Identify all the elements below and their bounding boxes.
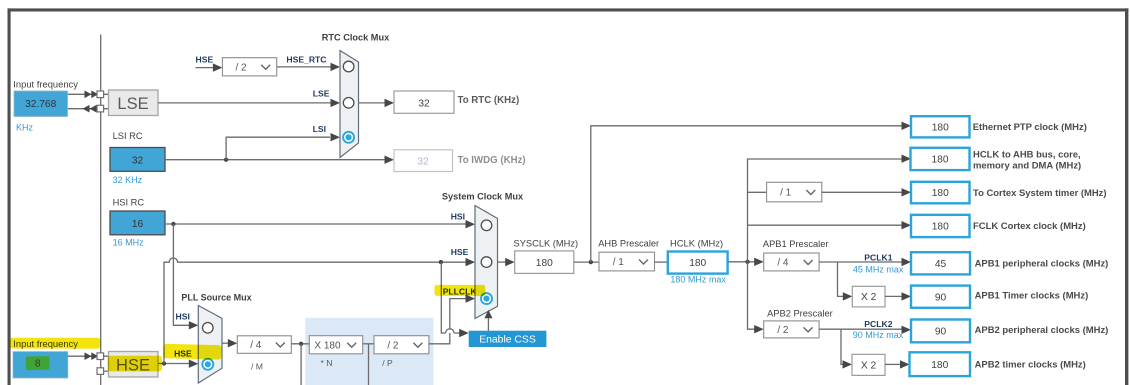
- HSE oscillator box: [109, 352, 159, 378]
- frame border top: [8, 8, 1129, 11]
- SYSCLK value box: [515, 251, 574, 274]
- To Cortex System timer label: [973, 188, 1107, 199]
- system clock mux body: [475, 206, 498, 319]
- wire LSE port to input-freq (return): [68, 108, 98, 110]
- HSE value green patch: [26, 356, 50, 370]
- svg-text:/ 2: / 2: [387, 340, 399, 351]
- wire HCLK riser: [748, 155, 912, 262]
- wire HSE_RTC to RTC mux: [277, 63, 340, 71]
- svg-text:To IWDG (KHz): To IWDG (KHz): [458, 155, 526, 166]
- PLL mux HSI radio: [203, 323, 214, 334]
- svg-text:/ M: / M: [251, 361, 263, 371]
- svg-text:180: 180: [932, 222, 949, 233]
- PCLK2 max label: [853, 330, 904, 340]
- wire LSE ports to LSE box: [104, 94, 109, 108]
- APB1 Prescaler label: [763, 239, 829, 249]
- multiplier N label: [321, 358, 333, 368]
- svg-text:PCLK1: PCLK1: [864, 253, 892, 263]
- svg-text:180: 180: [932, 188, 949, 199]
- HCLK label: [670, 237, 723, 248]
- PLL mux HSE radio selected: [202, 359, 213, 370]
- svg-text:32.768: 32.768: [25, 99, 56, 110]
- svg-text:HSE: HSE: [451, 247, 469, 257]
- svg-text:AHB Prescaler: AHB Prescaler: [598, 238, 659, 248]
- svg-text:90 MHz max: 90 MHz max: [853, 330, 904, 340]
- To IWDG label: [458, 155, 526, 166]
- svg-text:180: 180: [931, 360, 948, 371]
- APB2 timer clocks box: [910, 352, 971, 376]
- To RTC value box: [394, 91, 454, 113]
- HSE net label at RTC divider: [196, 54, 214, 64]
- svg-text:APB2 peripheral clocks (MHz): APB2 peripheral clocks (MHz): [975, 325, 1109, 336]
- divider P label: [382, 358, 393, 368]
- svg-text:Input frequency: Input frequency: [13, 78, 78, 89]
- svg-text:180 MHz max: 180 MHz max: [670, 274, 726, 284]
- double arrow forward HSE: [85, 352, 99, 360]
- LSI net label: [313, 124, 326, 134]
- wire input-freq to HSE port: [68, 355, 97, 357]
- PCLK1 max label: [853, 265, 904, 275]
- wire NP drop: [368, 344, 370, 385]
- PCLK1 net label: [864, 253, 892, 263]
- system mux HSI radio: [481, 220, 492, 231]
- wire APB2 X2 out: [885, 360, 910, 368]
- svg-text:HSE_RTC: HSE_RTC: [286, 54, 326, 64]
- svg-text:Ethernet PTP clock (MHz): Ethernet PTP clock (MHz): [973, 122, 1087, 133]
- svg-text:/ 4: / 4: [250, 340, 262, 351]
- wire M to N: [291, 343, 309, 345]
- wire HSE riser to system mux: [164, 258, 475, 364]
- svg-text:HSI RC: HSI RC: [113, 198, 145, 208]
- wire LSE to RTC mux: [158, 99, 340, 107]
- port square HSE upper: [97, 353, 104, 360]
- svg-text:To RTC (KHz): To RTC (KHz): [458, 95, 520, 106]
- APB2 X2 multiplier box: [852, 354, 885, 375]
- APB1 peripheral clocks label: [975, 258, 1109, 269]
- FCLK Cortex clock box: [911, 215, 970, 237]
- svg-text:32 KHz: 32 KHz: [113, 175, 143, 185]
- port square HSE lower: [97, 368, 104, 375]
- wire HSE stub to RTC divider: [196, 63, 223, 71]
- HSI RC box: [110, 211, 165, 235]
- RTC mux input LSI radio selected: [343, 132, 354, 143]
- wire system mux to SYSCLK box: [498, 258, 515, 266]
- HSI net label at PLL mux: [176, 311, 190, 321]
- system mux HSE radio: [481, 257, 492, 268]
- wire PLL M drop: [300, 344, 302, 385]
- wire APB1 timer branch: [838, 262, 853, 301]
- APB2 Prescaler label: [767, 309, 833, 319]
- port square LSE upper: [97, 91, 104, 98]
- HSE input frequency box: [13, 352, 68, 378]
- APB1 X2 multiplier box: [852, 286, 885, 307]
- LSI RC label: [113, 131, 143, 141]
- wire cortex prescaler out: [822, 188, 911, 196]
- PLL divider M dropdown: [237, 336, 291, 354]
- svg-text:45 MHz max: 45 MHz max: [853, 265, 904, 275]
- wire HSE to CSS (with hop): [441, 262, 468, 337]
- svg-text:To Cortex System timer (MHz): To Cortex System timer (MHz): [973, 188, 1107, 199]
- svg-text:HCLK to AHB bus, core,: HCLK to AHB bus, core,: [973, 150, 1081, 161]
- svg-text:PCLK2: PCLK2: [864, 319, 892, 329]
- svg-text:FCLK Cortex clock (MHz): FCLK Cortex clock (MHz): [973, 221, 1086, 232]
- svg-text:/ 1: / 1: [613, 257, 625, 268]
- wire CSS arrow into mux: [484, 310, 492, 331]
- wire LSI riser to RTC mux: [226, 133, 340, 160]
- double arrow forward LSE: [85, 91, 99, 99]
- svg-text:90: 90: [935, 292, 947, 303]
- svg-text:/ 4: / 4: [777, 257, 789, 268]
- svg-text:HSE: HSE: [196, 54, 214, 64]
- svg-text:8: 8: [35, 359, 41, 370]
- highlight input frequency label: [10, 338, 101, 349]
- wire HSI descender to PLL mux: [173, 224, 198, 330]
- svg-text:PLL Source Mux: PLL Source Mux: [181, 293, 251, 303]
- junction HSE-CSS branch: [439, 260, 443, 264]
- svg-text:32: 32: [418, 98, 430, 109]
- frame border left: [8, 8, 11, 385]
- svg-text:180: 180: [536, 258, 553, 269]
- wire HSI to system mux: [165, 220, 475, 228]
- HSE_RTC net label: [286, 54, 326, 64]
- PLL multiplier N dropdown: [309, 336, 362, 354]
- wire APB1 X2 out: [885, 292, 911, 300]
- svg-text:Enable CSS: Enable CSS: [479, 335, 536, 346]
- svg-text:45: 45: [935, 259, 947, 270]
- svg-text:KHz: KHz: [16, 122, 34, 132]
- svg-text:180: 180: [932, 155, 949, 166]
- junction SYSCLK output: [589, 260, 593, 264]
- svg-text:32: 32: [417, 157, 429, 168]
- junction LSI branch: [224, 158, 228, 162]
- svg-text:APB1 Timer clocks (MHz): APB1 Timer clocks (MHz): [975, 290, 1089, 301]
- KHz unit label: [16, 122, 34, 132]
- double arrow return LSE: [83, 105, 97, 113]
- wire APB2 out: [819, 326, 911, 334]
- To Cortex System timer box: [911, 182, 970, 204]
- wire SYSCLK riser to Ethernet PTP: [591, 122, 911, 263]
- Enable CSS button: [469, 331, 547, 347]
- svg-text:LSI RC: LSI RC: [113, 131, 143, 141]
- wire LSI to IWDG: [165, 156, 394, 164]
- PLL Source Mux title: [181, 293, 251, 303]
- svg-text:LSI: LSI: [313, 124, 326, 134]
- divider M label: [251, 361, 263, 371]
- APB2 peripheral clocks box: [911, 320, 970, 343]
- svg-text:180: 180: [689, 258, 706, 269]
- Ethernet PTP clock label: [973, 122, 1087, 133]
- wire PLL mux to divider M: [222, 339, 237, 347]
- highlight HSE net label: [163, 344, 221, 360]
- wire PLLCLK to system mux: [429, 294, 475, 343]
- HSE net label at PLL mux: [174, 349, 192, 359]
- svg-text:APB1 Prescaler: APB1 Prescaler: [763, 239, 829, 249]
- FCLK Cortex clock label: [973, 221, 1086, 232]
- PLL dividers panel: [305, 318, 433, 385]
- svg-text:HSI: HSI: [176, 311, 190, 321]
- input frequency label (HSE): [13, 338, 78, 349]
- svg-text:APB2 timer clocks (MHz): APB2 timer clocks (MHz): [975, 359, 1086, 370]
- wire N to P: [363, 343, 374, 345]
- highlight PLLCLK net label: [435, 285, 486, 296]
- svg-text:/ 1: / 1: [780, 188, 792, 199]
- wire HSE ports to HSE box: [104, 356, 109, 371]
- PLL source mux body: [198, 306, 222, 384]
- cortex timer prescaler dropdown: [767, 182, 822, 202]
- APB1 prescaler dropdown: [764, 253, 819, 271]
- AHB prescaler dropdown: [599, 252, 655, 271]
- svg-text:/ P: / P: [382, 358, 393, 368]
- junction HSE output: [162, 361, 166, 365]
- svg-text:/ 2: / 2: [235, 62, 247, 73]
- HSI RC label: [113, 198, 145, 208]
- RTC clock mux body: [340, 51, 359, 158]
- frame border right: [1125, 8, 1128, 385]
- LSI RC box: [110, 148, 165, 172]
- PCLK2 net label: [864, 319, 892, 329]
- RTC mux input HSE_RTC radio: [343, 61, 354, 72]
- HCLK value box: [668, 252, 728, 274]
- wire APB1 out: [819, 258, 911, 266]
- input frequency label (LSE): [13, 78, 78, 89]
- junction PLL M output: [299, 342, 303, 346]
- system mux PLLCLK radio selected: [481, 293, 492, 304]
- svg-text:APB2 Prescaler: APB2 Prescaler: [767, 309, 833, 319]
- LSE input frequency box: [14, 91, 68, 117]
- svg-text:16 MHz: 16 MHz: [113, 237, 145, 247]
- HSI net label at system mux: [451, 211, 465, 221]
- wire input-freq to LSE port (forward): [68, 93, 97, 95]
- To RTC label: [458, 95, 520, 106]
- APB1 timer clocks box: [911, 286, 970, 308]
- wire AHB to HCLK box: [655, 261, 668, 263]
- wire HCLK out: [728, 258, 764, 266]
- APB2 prescaler dropdown: [764, 321, 819, 338]
- svg-text:LSE: LSE: [313, 89, 330, 99]
- svg-text:LSE: LSE: [117, 95, 148, 113]
- HCLK AHB bus label: [973, 150, 1081, 172]
- svg-text:/ 2: / 2: [777, 325, 789, 336]
- svg-text:RTC Clock Mux: RTC Clock Mux: [322, 32, 390, 42]
- svg-text:X 180: X 180: [314, 340, 341, 351]
- wire HSE box to PLL mux: [158, 360, 198, 368]
- svg-text:X 2: X 2: [861, 292, 877, 303]
- APB1 timer clocks label: [975, 290, 1089, 301]
- wire HCLK to APB2: [748, 262, 764, 334]
- svg-text:HSI: HSI: [451, 211, 465, 221]
- HSE net label at system mux: [451, 247, 469, 257]
- wire APB2 timer branch: [841, 329, 852, 368]
- Ethernet PTP clock box: [911, 116, 970, 137]
- port square LSE lower: [97, 105, 104, 112]
- wire RTC mux to RTC box: [359, 99, 395, 107]
- PLL divider P dropdown: [374, 336, 429, 354]
- svg-text:90: 90: [935, 327, 947, 338]
- junction HSI branch: [171, 222, 175, 226]
- LSE net label: [313, 89, 330, 99]
- 16 MHz unit label: [113, 237, 145, 247]
- svg-text:180: 180: [932, 122, 949, 133]
- junction HCLK output: [745, 260, 749, 264]
- svg-text:System Clock Mux: System Clock Mux: [442, 192, 524, 202]
- HCLK AHB bus box: [911, 148, 970, 170]
- svg-text:APB1 peripheral clocks (MHz): APB1 peripheral clocks (MHz): [975, 258, 1109, 269]
- 32 KHz unit label: [113, 175, 143, 185]
- highlight HSE box: [108, 356, 163, 372]
- APB2 peripheral clocks label: [975, 325, 1109, 336]
- svg-text:32: 32: [132, 155, 144, 166]
- wire branch to cortex prescaler: [748, 191, 767, 193]
- svg-text:* N: * N: [321, 358, 333, 368]
- LSE oscillator box: [109, 90, 159, 116]
- SYSCLK label: [514, 239, 579, 249]
- svg-text:HCLK (MHz): HCLK (MHz): [670, 237, 723, 248]
- System Clock Mux title: [442, 192, 524, 202]
- svg-text:16: 16: [132, 219, 144, 230]
- APB1 peripheral clocks box: [911, 252, 970, 274]
- PLLCLK net label: [443, 287, 478, 297]
- To IWDG value box: [394, 150, 453, 172]
- wire branch to FCLK: [748, 221, 912, 229]
- svg-text:X 2: X 2: [861, 360, 877, 371]
- AHB Prescaler label: [598, 238, 659, 248]
- svg-text:memory and DMA (MHz): memory and DMA (MHz): [973, 161, 1081, 172]
- clock source bus line: [100, 35, 102, 385]
- HCLK max label: [670, 274, 726, 284]
- RTC HSE divider dropdown: [222, 58, 276, 76]
- APB2 timer clocks label: [975, 359, 1086, 370]
- RTC Clock Mux title: [322, 32, 390, 42]
- wire SYSCLK to AHB prescaler: [574, 261, 599, 263]
- RTC mux input LSE radio: [343, 98, 354, 109]
- svg-text:SYSCLK (MHz): SYSCLK (MHz): [514, 239, 579, 249]
